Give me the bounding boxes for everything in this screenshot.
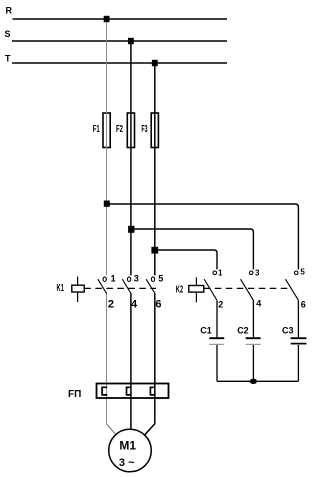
contactor K2 coil (189, 286, 204, 293)
wire phase 2 lower vertical (130, 294, 132, 430)
svg-text:2: 2 (218, 299, 223, 309)
heater element 1 (102, 387, 107, 395)
K2 coil top stub (195, 277, 197, 285)
svg-text:3: 3 (134, 273, 139, 283)
capacitor C2 bottom plate (gray) (246, 343, 261, 345)
wire tap T to contact d1 (155, 250, 217, 269)
wire d5 to C3 (297, 300, 299, 337)
K1 linkage dashed line (84, 287, 156, 289)
junction dot J1 (104, 201, 110, 207)
capacitor C2 top plate (246, 337, 261, 339)
wire phase R bus (13, 18, 228, 20)
K1 coil bottom stub (77, 292, 79, 302)
heater element 3 (150, 387, 155, 395)
K1 coil top stub (77, 277, 79, 286)
wire C1 to bus (216, 345, 218, 381)
junction dot on R (104, 16, 110, 22)
svg-text:3: 3 (255, 268, 260, 277)
K1 contact 3-4 circle (128, 277, 131, 282)
capacitor star-point bus (217, 380, 298, 382)
contactor K1 coil (72, 285, 84, 292)
svg-text:F1: F1 (93, 124, 100, 135)
svg-text:FП: FП (68, 389, 81, 400)
K2 linkage dashed line (204, 287, 291, 289)
heater element 2 (127, 387, 132, 395)
thermal overload box (97, 384, 169, 399)
svg-text:1: 1 (111, 273, 116, 283)
wire phase 1 diagonal to motor (107, 424, 116, 435)
K2 contact d3 circle (249, 271, 253, 275)
svg-text:K2: K2 (176, 285, 184, 296)
wire C2 to bus (252, 345, 254, 381)
svg-text:4: 4 (131, 299, 138, 311)
K2 contact d1 blade (204, 279, 217, 300)
K1 contact 1-2 blade (98, 279, 107, 293)
K1 contact 5-6 circle (151, 277, 154, 282)
fuse F1 (103, 113, 110, 148)
svg-text:T: T (5, 54, 11, 64)
wire phase T bus (12, 62, 227, 64)
junction dot on S (128, 38, 134, 44)
K1 contact 1-2 circle (103, 277, 106, 282)
bus junction dot (250, 379, 257, 384)
junction dot J2 (128, 226, 134, 233)
svg-text:C3: C3 (282, 325, 294, 335)
svg-text:F3: F3 (141, 124, 147, 135)
wire C3 to bus (297, 345, 299, 381)
K1 contact 3-4 blade (122, 279, 131, 293)
capacitor C3 bottom plate (291, 343, 307, 345)
wire phase 3 lower vertical (145, 294, 155, 435)
junction dot J3 (151, 247, 158, 254)
svg-text:M1: M1 (119, 438, 136, 452)
wire d1 to C1 (216, 300, 218, 337)
capacitor C1 bottom plate (gray) (209, 343, 224, 345)
wire phase S bus (12, 40, 227, 42)
svg-text:6: 6 (301, 300, 306, 310)
svg-text:5: 5 (158, 273, 163, 283)
svg-text:2: 2 (108, 299, 114, 311)
K2 contact d1 circle (213, 271, 217, 275)
wire phase 1 lower vertical (gray) (106, 294, 108, 424)
K2 contact d3 blade (241, 279, 254, 300)
junction dot on T (152, 60, 158, 66)
svg-text:K1: K1 (57, 283, 65, 294)
wire phase 3 vertical (154, 63, 156, 275)
svg-text:3 ~: 3 ~ (119, 457, 135, 469)
K2 contact d5 blade (286, 279, 299, 300)
wire tap R to contact d5 (107, 204, 299, 269)
K2 contact d5 circle (294, 271, 298, 275)
wire phase 2 vertical (130, 41, 132, 275)
wire phase 1 vertical (gray) (106, 19, 108, 275)
svg-text:F2: F2 (116, 124, 123, 135)
fuse F3 (151, 113, 158, 148)
fuse F2 (127, 113, 134, 148)
svg-text:1: 1 (218, 268, 223, 277)
svg-text:R: R (6, 6, 13, 16)
svg-text:C2: C2 (237, 325, 249, 335)
K2 coil bottom stub (195, 292, 197, 302)
svg-text:4: 4 (256, 299, 261, 309)
capacitor C1 top plate (209, 337, 224, 339)
K1 contact 5-6 blade (146, 279, 155, 293)
svg-text:S: S (5, 29, 11, 39)
svg-text:6: 6 (155, 299, 161, 311)
svg-text:5: 5 (300, 268, 305, 277)
wire tap S to contact d3 (131, 229, 254, 269)
motor M1 circle (109, 429, 152, 472)
capacitor C3 top plate (291, 337, 307, 339)
wire d3 to C2 (252, 300, 254, 337)
svg-text:C1: C1 (200, 326, 212, 336)
